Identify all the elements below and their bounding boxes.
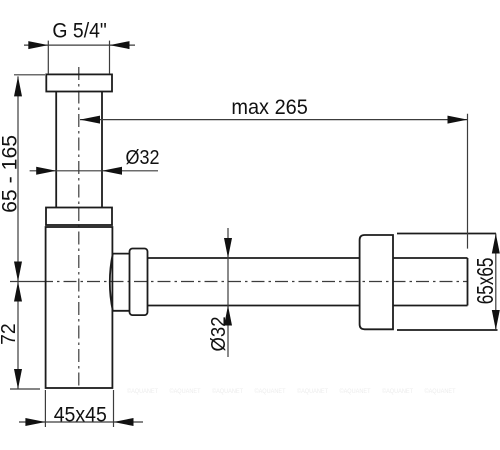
dimension outlet diameter top arrow xyxy=(224,238,232,258)
dimension max 265 left arrow xyxy=(80,116,100,124)
svg-text:©AQUANET: ©AQUANET xyxy=(297,387,328,395)
inlet pipe right wall xyxy=(101,92,103,208)
dimension 65 - 165 line xyxy=(17,76,19,281)
wall rosette bottom edge xyxy=(397,329,498,331)
svg-text:©AQUANET: ©AQUANET xyxy=(425,387,456,395)
svg-text:©AQUANET: ©AQUANET xyxy=(170,387,201,395)
dimension inlet diameter line xyxy=(30,170,158,172)
dimension 65 - 165 top arrow xyxy=(14,76,22,96)
svg-text:72: 72 xyxy=(0,323,20,345)
body bottom tick xyxy=(10,388,40,390)
watermark row xyxy=(127,387,456,395)
dimension 72 top arrow xyxy=(14,282,22,302)
dimension 45x45 right arrow xyxy=(114,418,134,426)
outlet pipe end bottom wall xyxy=(393,305,468,307)
svg-text:65x65: 65x65 xyxy=(472,258,498,305)
dimension inlet diameter right arrow xyxy=(102,167,122,175)
svg-text:max 265: max 265 xyxy=(231,95,308,119)
dimension 65x65 line xyxy=(495,234,497,331)
dimension 45x45 left arrow xyxy=(25,418,45,426)
svg-text:©AQUANET: ©AQUANET xyxy=(255,387,286,395)
dimension max 265 right extension line xyxy=(467,114,469,249)
dimension outlet diameter bottom arrow xyxy=(224,306,232,326)
svg-text:©AQUANET: ©AQUANET xyxy=(382,387,413,395)
horizontal centerline of outlet pipe xyxy=(40,281,468,283)
svg-text:©AQUANET: ©AQUANET xyxy=(127,387,158,395)
outlet pipe bottom wall xyxy=(148,305,360,307)
dimension outlet diameter line xyxy=(227,228,229,357)
outlet stub with curved face xyxy=(110,254,130,311)
dimension max 265 right arrow xyxy=(448,116,468,124)
inlet pipe left wall xyxy=(55,92,57,208)
svg-text:G 5/4": G 5/4" xyxy=(52,18,106,42)
dimension 65x65 bottom arrow xyxy=(492,310,500,330)
dimension 45x45 line xyxy=(19,421,143,423)
dimension 72 bottom arrow xyxy=(14,369,22,389)
dimension G 5/4" left arrow xyxy=(28,41,48,49)
dimension max 265 line xyxy=(80,119,468,121)
dimension 45x45 left extension line xyxy=(44,390,46,427)
dimension 65 - 165 bottom arrow xyxy=(14,262,22,282)
dimension 65x65 top arrow xyxy=(492,234,500,254)
wall nut (right) xyxy=(360,235,393,329)
vertical centerline of trap inlet xyxy=(78,67,80,388)
dimension G 5/4" left extension line xyxy=(47,41,49,74)
outlet pipe top wall xyxy=(148,257,360,259)
dimension inlet diameter left arrow xyxy=(36,167,56,175)
inlet flange xyxy=(46,74,112,91)
dimension 72 line xyxy=(17,282,19,390)
svg-text:©AQUANET: ©AQUANET xyxy=(212,387,243,395)
dimension 45x45 right extension line xyxy=(113,390,115,427)
dimension 65 - 165 top tick xyxy=(14,74,45,76)
body collar xyxy=(46,208,112,226)
outlet pipe end top wall xyxy=(393,257,468,259)
svg-text:©AQUANET: ©AQUANET xyxy=(340,387,371,395)
wall rosette top edge xyxy=(397,233,496,235)
dimension G 5/4" right extension line xyxy=(109,41,111,74)
outlet nut (left) xyxy=(130,249,148,316)
svg-text:Ø32: Ø32 xyxy=(126,146,160,169)
svg-text:45x45: 45x45 xyxy=(54,402,107,426)
trap body cup xyxy=(46,227,113,388)
outlet pipe end cap xyxy=(467,258,469,306)
dimension G 5/4" line xyxy=(24,44,135,46)
centerline tick xyxy=(10,281,40,283)
dimension G 5/4" right arrow xyxy=(110,41,130,49)
